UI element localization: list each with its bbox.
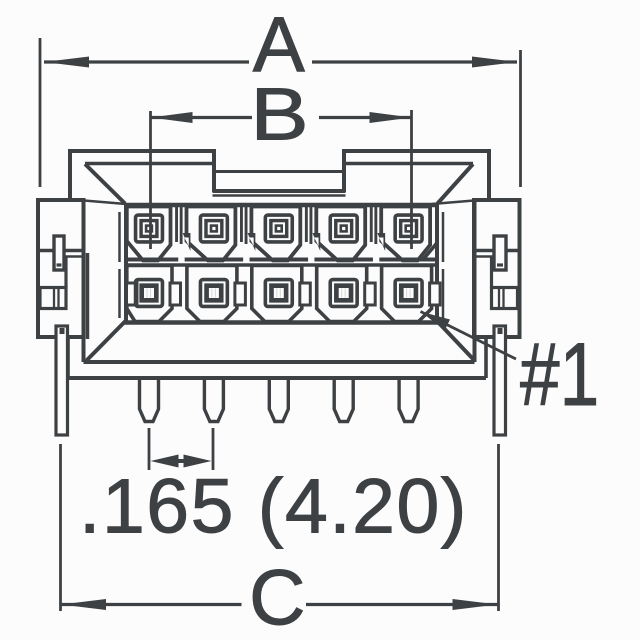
top divider partition a 2: [240, 207, 243, 243]
pin 1 leader line: [421, 312, 517, 360]
left side wall slot upper: [118, 212, 121, 262]
housing base bottom edge: [68, 376, 486, 380]
dim B left arrowhead: [151, 112, 193, 123]
perspective diagonal bottom-left: [87, 321, 126, 361]
inner rim top edge: [124, 203, 439, 208]
left side wall slot lower: [118, 269, 121, 318]
left metal clip: [54, 236, 64, 270]
top divider partition a 3: [305, 207, 308, 243]
top row cavity 3: [251, 207, 300, 261]
right board peg: [494, 326, 506, 435]
dim C left arrowhead: [61, 599, 106, 610]
outer rim left edge: [82, 200, 86, 362]
bottom row key ring 2: [235, 283, 246, 305]
left peg detail: [60, 328, 65, 334]
solder leg 3: [269, 380, 288, 422]
pin contact row1 col3: [265, 215, 292, 242]
right flange box divider 1: [498, 288, 500, 309]
top divider wedge 3: [312, 233, 320, 251]
cap right inner edge: [344, 162, 473, 165]
inner rim bottom edge: [124, 320, 439, 325]
left flange inner step: [64, 255, 85, 258]
right flange inner step: [473, 255, 494, 258]
right flange box divider 2: [502, 288, 504, 309]
bottom row cavity 1: [127, 266, 172, 322]
dim C line left segment: [61, 603, 242, 606]
top row cavity 1: [127, 207, 171, 261]
dim A left arrowhead: [44, 57, 89, 68]
dim B left extension line: [149, 111, 152, 249]
top divider partition b 4: [374, 207, 377, 245]
dim A line left segment: [44, 60, 249, 63]
middle line breaks at dividers: [178, 257, 184, 262]
dim C left extension line: [59, 444, 62, 611]
housing top cap left outline: [70, 151, 214, 199]
cap left inner edge: [85, 162, 214, 165]
dim A line right segment: [312, 60, 517, 63]
pitch dim left extension: [148, 428, 151, 470]
top divider wedge hole 2: [249, 238, 253, 247]
left flange box divider 2: [57, 288, 59, 309]
right clip tick: [497, 263, 503, 266]
left board peg: [56, 326, 68, 435]
cavity middle line lower: [126, 263, 437, 267]
bottom row cavity 2: [187, 266, 237, 322]
bottom row key ring 3: [300, 283, 311, 305]
pin contact row2 col4: [330, 280, 357, 307]
pin contact row1 col5: [395, 215, 422, 242]
perspective diagonal top-right: [438, 164, 474, 204]
pin contact row1 col2: [200, 215, 227, 242]
bottom row cavity 5: [382, 266, 432, 322]
pitch dim left arrowhead: [151, 455, 179, 468]
dim B line left segment: [151, 116, 253, 119]
top divider partition a 4: [370, 207, 373, 243]
inner rim left edge: [124, 203, 128, 322]
right metal clip: [494, 236, 506, 270]
pin contact row1 col4: [330, 215, 357, 242]
dim A right arrowhead: [472, 57, 517, 68]
left rim ledge line: [84, 201, 126, 205]
right flange lower box: [492, 288, 518, 309]
bottom row key ring 5: [430, 283, 441, 305]
dim B line right segment: [319, 116, 412, 119]
housing base left edge: [66, 338, 70, 378]
svg-text:C: C: [249, 553, 305, 640]
dim C line right segment: [306, 603, 498, 606]
left flange depth edge: [86, 253, 90, 339]
top row cavity 2: [187, 207, 236, 261]
solder leg 5: [399, 380, 418, 422]
top divider wedge hole 1: [184, 238, 188, 247]
left flange inner vertical: [64, 257, 67, 288]
pitch dim right extension: [212, 428, 215, 470]
dim B right extension line: [410, 110, 413, 249]
dim B right arrowhead: [370, 112, 412, 123]
housing top cap right outline: [344, 151, 489, 199]
bottom row left rim key: [127, 283, 138, 305]
top row cavity 4: [316, 207, 365, 261]
bottom row cavity 4: [317, 266, 367, 322]
svg-text:.165 (4.20): .165 (4.20): [79, 464, 468, 550]
bottom row key ring 4: [365, 283, 376, 305]
svg-text:#1: #1: [520, 325, 599, 424]
housing base right edge: [484, 338, 488, 378]
right side wall slot upper: [442, 212, 445, 262]
perspective diagonal bottom-right: [437, 321, 474, 360]
bottom row cavity 3: [252, 266, 302, 322]
top divider wedge 2: [248, 233, 256, 251]
inner rim right edge: [435, 203, 439, 322]
top divider wedge 1: [183, 233, 191, 251]
pin contact row1 col1: [136, 215, 163, 242]
top divider wedge 4: [377, 233, 385, 251]
svg-text:B: B: [250, 74, 308, 156]
left clip tick: [57, 263, 62, 266]
center recess bottom inner line: [213, 194, 346, 197]
right flange inner vertical: [490, 257, 493, 288]
dim C right extension line: [497, 444, 500, 611]
outer rim bottom edge: [84, 360, 475, 364]
top divider wedge hole 4: [379, 238, 383, 247]
pin contact row2 col3: [265, 280, 292, 307]
top divider partition b 3: [310, 207, 313, 245]
pin contact row2 col1: [136, 280, 163, 307]
center recess bottom line: [213, 189, 346, 193]
right peg detail: [498, 328, 503, 334]
pitch dim right arrowhead: [184, 455, 212, 468]
top divider partition b 1: [180, 207, 183, 245]
top row right rim chamfer: [423, 244, 437, 260]
cavity middle line upper: [126, 258, 437, 262]
left mounting flange: [38, 200, 84, 337]
solder leg 2: [204, 380, 223, 422]
dim C right arrowhead: [453, 599, 498, 610]
pin 1 leader arrowhead: [421, 312, 451, 331]
right side wall slot lower: [442, 269, 445, 318]
perspective diagonal top-left: [85, 164, 125, 204]
top divider partition b 2: [245, 207, 248, 245]
solder leg 4: [334, 380, 353, 422]
pin contact row2 col5: [395, 280, 422, 307]
top row cavity 5: [381, 207, 430, 261]
dim A right extension line: [519, 50, 522, 187]
right flange bar: [474, 249, 520, 252]
center recess bar top: [214, 170, 344, 173]
right rim ledge line: [432, 201, 474, 205]
right mounting flange: [474, 200, 520, 337]
left flange lower box: [40, 288, 66, 309]
left flange bar: [38, 249, 84, 252]
pin contact row2 col2: [200, 280, 227, 307]
left flange box divider 1: [53, 288, 55, 309]
solder leg 1: [140, 380, 159, 422]
pitch dim shaft: [162, 459, 200, 463]
top divider partition a 1: [175, 207, 178, 243]
bottom row key ring 1: [170, 283, 181, 305]
outer rim right edge: [473, 200, 477, 362]
dim A left extension line: [39, 38, 42, 187]
top divider wedge hole 3: [314, 238, 318, 247]
